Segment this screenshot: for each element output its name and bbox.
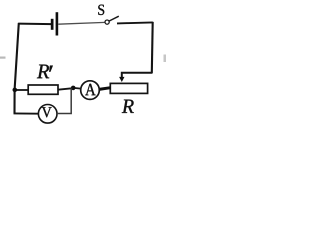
wire: right rail down from top-right corner — [151, 22, 154, 73]
wire: voltmeter right lead up to junction dot — [57, 89, 71, 114]
rheostat R: resistor body box — [110, 83, 147, 93]
scan artifact left edge — [0, 57, 6, 59]
wire: left rail to resistor R' left lead — [15, 89, 29, 91]
wire: slider feed horizontal + drop to wiper — [122, 73, 153, 78]
battery cell: negative plate (short thick) — [51, 19, 54, 30]
wire: bottom-left corner to voltmeter — [14, 112, 39, 114]
voltmeter V: letter — [42, 107, 52, 117]
wire: switch right contact to top-right corner — [117, 22, 153, 23]
scan artifact right edge — [164, 55, 167, 63]
wire: resistor R' right lead to junction dot — [58, 88, 73, 90]
rheostat R: wiper arrow head — [119, 77, 124, 82]
ammeter A: letter — [85, 84, 95, 95]
switch S: label — [98, 5, 104, 15]
ammeter A: circle — [81, 81, 100, 100]
node: junction dot between R' and ammeter — [71, 86, 76, 91]
battery cell: positive plate (long) — [56, 12, 59, 35]
resistor R': value label — [37, 65, 49, 79]
wire: left rail from top-left corner down to bottom-left corner — [15, 23, 19, 113]
voltmeter V: circle — [38, 105, 57, 124]
wire: junction dot to ammeter — [75, 87, 82, 90]
resistor R': body box — [28, 85, 58, 94]
node: junction dot on left rail — [13, 88, 18, 93]
wire: thick lead from ammeter to rheostat — [99, 88, 111, 90]
switch S: open lever blade — [109, 16, 119, 21]
wire: battery to switch contact (thin grey) — [58, 22, 105, 24]
wire: top-left horizontal from corner to battery — [18, 23, 51, 26]
rheostat R: value label — [122, 100, 134, 113]
resistor R': prime mark of label — [49, 66, 53, 72]
switch S: hinge contact circle — [105, 20, 109, 24]
